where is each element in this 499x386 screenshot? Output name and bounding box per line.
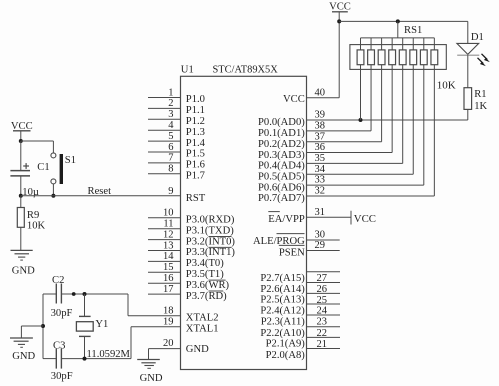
pin number 26 bbox=[317, 284, 328, 295]
svg-text:GND: GND bbox=[186, 344, 209, 355]
svg-text:VCC: VCC bbox=[354, 213, 376, 225]
svg-text:P1.7: P1.7 bbox=[186, 171, 205, 182]
pin number 7 bbox=[168, 153, 173, 164]
wire pin 29 stub bbox=[307, 250, 340, 252]
pin number 8 bbox=[168, 164, 173, 175]
wire pin 36 net P0.3 bbox=[307, 152, 393, 154]
overline RD of P3.7 bbox=[209, 290, 224, 292]
svg-text:11: 11 bbox=[163, 219, 173, 230]
wire pin 37 net P0.2 bbox=[307, 141, 382, 143]
wire pin 4 stub bbox=[148, 129, 181, 131]
op-amp U1 microcontroller STC/AT89X5X body bbox=[181, 76, 307, 369]
pin number 27 bbox=[317, 273, 328, 284]
wire pin 5 stub bbox=[148, 140, 181, 142]
svg-text:37: 37 bbox=[315, 131, 326, 142]
svg-text:5: 5 bbox=[168, 131, 173, 142]
resistor RS1 element 6 bbox=[410, 38, 417, 65]
svg-text:P2.1(A9): P2.1(A9) bbox=[266, 339, 306, 350]
wire pin 10 stub bbox=[148, 217, 181, 219]
pin number 16 bbox=[163, 273, 174, 284]
wire pin 31 EA/VPP to VCC bbox=[307, 211, 352, 225]
pin label RST bbox=[186, 193, 206, 204]
svg-text:GND: GND bbox=[12, 265, 35, 276]
svg-text:P1.3: P1.3 bbox=[186, 127, 205, 138]
C1 polarity plus sign bbox=[23, 163, 29, 169]
wire RS1-6 to P0.5 bbox=[412, 65, 414, 175]
wire pin 34 net P0.5 bbox=[307, 173, 414, 175]
svg-text:10K: 10K bbox=[437, 80, 456, 92]
wire pin 39 net P0.0 bbox=[307, 119, 468, 121]
svg-text:P0.6(AD6): P0.6(AD6) bbox=[258, 182, 305, 193]
pin label P1.7 bbox=[186, 171, 205, 182]
GND label (pin 20) bbox=[140, 373, 163, 384]
svg-text:P0.4(AD4): P0.4(AD4) bbox=[258, 161, 305, 172]
pin number 36 bbox=[315, 142, 326, 153]
pin label PSEN bbox=[279, 248, 305, 259]
resistor RS1 element 8 bbox=[431, 38, 438, 65]
ground symbol (crystal) bbox=[10, 338, 33, 347]
pin label P0.4(AD4) bbox=[258, 161, 305, 172]
pin label P3.4(T0) bbox=[186, 258, 224, 269]
wire pin 2 stub bbox=[148, 107, 181, 109]
GND label (reset) bbox=[12, 265, 35, 276]
pin number 13 bbox=[163, 240, 174, 251]
pin number 39 bbox=[315, 110, 326, 121]
D1 light arrow 2 bbox=[478, 58, 486, 66]
RS1 label bbox=[404, 25, 422, 36]
GND label (crystal) bbox=[12, 351, 35, 362]
wire pin 33 net P0.6 bbox=[307, 184, 424, 186]
pin label P2.2(A10) bbox=[260, 328, 305, 339]
wire XTAL bottom net bbox=[43, 358, 131, 360]
pin label P3.3(INT1) bbox=[186, 247, 236, 258]
svg-text:P2.3(A11): P2.3(A11) bbox=[261, 316, 306, 327]
R1 label bbox=[474, 89, 486, 100]
svg-text:C3: C3 bbox=[53, 340, 65, 351]
wire pin P2.2 stub bbox=[307, 326, 341, 328]
svg-text:7: 7 bbox=[168, 153, 173, 164]
svg-text:P0.3(AD3): P0.3(AD3) bbox=[258, 150, 305, 161]
svg-text:P3.0(RXD): P3.0(RXD) bbox=[186, 215, 235, 226]
pin label P0.2(AD2) bbox=[258, 139, 305, 150]
svg-text:P3.1(TXD): P3.1(TXD) bbox=[186, 225, 234, 236]
pin label P2.0(A8) bbox=[266, 350, 306, 361]
pin label P0.5(AD5) bbox=[258, 171, 305, 182]
svg-text:1K: 1K bbox=[474, 101, 487, 112]
pin number 25 bbox=[317, 295, 328, 306]
pin label P2.6(A14) bbox=[260, 284, 305, 295]
pin label P0.7(AD7) bbox=[258, 193, 305, 204]
wire pin 6 stub bbox=[148, 151, 181, 153]
svg-text:U1: U1 bbox=[181, 64, 194, 75]
pin number 31 bbox=[315, 207, 326, 218]
pin number 4 bbox=[168, 120, 174, 131]
wire pin P2.7 stub bbox=[307, 271, 341, 273]
svg-text:RST: RST bbox=[186, 193, 206, 204]
svg-text:40: 40 bbox=[315, 87, 326, 98]
pin number 21 bbox=[317, 339, 328, 350]
svg-text:D1: D1 bbox=[471, 32, 484, 43]
pin label P3.1(TXD) bbox=[186, 225, 234, 236]
pin number 11 bbox=[163, 219, 173, 230]
pin label P2.1(A9) bbox=[266, 339, 306, 350]
svg-text:P3.6(WR): P3.6(WR) bbox=[186, 280, 230, 291]
wire XTAL left vertical bbox=[42, 294, 44, 359]
svg-text:GND: GND bbox=[12, 351, 35, 362]
svg-text:STC/AT89X5X: STC/AT89X5X bbox=[213, 64, 279, 75]
svg-text:P2.4(A12): P2.4(A12) bbox=[260, 305, 305, 316]
svg-text:18: 18 bbox=[163, 306, 174, 317]
svg-text:S1: S1 bbox=[65, 155, 76, 166]
pin number 23 bbox=[317, 316, 328, 327]
svg-text:P2.5(A13): P2.5(A13) bbox=[260, 295, 305, 306]
svg-text:P1.6: P1.6 bbox=[186, 160, 205, 171]
pin label P3.7(RD) bbox=[186, 291, 227, 302]
pin label P3.6(WR) bbox=[186, 280, 230, 291]
svg-text:Y1: Y1 bbox=[95, 319, 108, 330]
svg-text:20: 20 bbox=[163, 338, 174, 349]
wire R1 to P0.0 bbox=[467, 109, 469, 120]
resistor R9 bbox=[17, 196, 24, 250]
wire VCC to D1 bbox=[467, 21, 469, 43]
wire S1 to reset net bbox=[52, 184, 54, 196]
resistor RS1 element 3 bbox=[378, 38, 385, 65]
node junction RS1 stem bbox=[396, 19, 400, 23]
svg-text:P2.6(A14): P2.6(A14) bbox=[260, 284, 305, 295]
overline EA bbox=[268, 211, 280, 213]
svg-text:33: 33 bbox=[315, 175, 326, 186]
pin number 38 bbox=[315, 120, 326, 131]
pin number 10 bbox=[163, 208, 174, 219]
overline PROG bbox=[277, 233, 305, 235]
node junction VCC/C1/S1 bbox=[19, 139, 23, 143]
wire pin 32 net P0.7 bbox=[307, 195, 435, 197]
wire VCC to S1 bbox=[21, 141, 54, 153]
wire D1 to R1 bbox=[467, 55, 469, 87]
wire pin 40 VCC stub bbox=[307, 97, 340, 99]
node junction Y1 bottom bbox=[83, 357, 87, 361]
LED D1 bbox=[457, 43, 479, 55]
svg-text:39: 39 bbox=[315, 110, 326, 121]
C1 value 10u bbox=[22, 187, 39, 198]
pin label P1.1 bbox=[186, 105, 205, 116]
pin number 30 bbox=[315, 230, 326, 241]
svg-text:P3.2(INT0): P3.2(INT0) bbox=[186, 236, 236, 247]
pin number 14 bbox=[163, 251, 174, 262]
C2 label bbox=[52, 275, 64, 286]
wire RS1-4 to P0.3 bbox=[391, 65, 393, 153]
pin number 18 bbox=[163, 306, 174, 317]
wire RS1-8 to P0.7 bbox=[433, 65, 435, 196]
pin number 9 bbox=[168, 186, 173, 197]
wire RS1-3 to P0.2 bbox=[381, 65, 383, 142]
svg-text:P3.3(INT1): P3.3(INT1) bbox=[186, 247, 236, 258]
svg-text:P1.1: P1.1 bbox=[186, 105, 205, 116]
resistor RS1 element 7 bbox=[420, 38, 427, 65]
svg-text:RS1: RS1 bbox=[404, 25, 422, 36]
node junction S1/reset bbox=[51, 194, 55, 198]
R9 value 10K bbox=[27, 221, 46, 232]
svg-text:10K: 10K bbox=[27, 221, 46, 232]
pin number 1 bbox=[168, 87, 173, 98]
pin label P1.0 bbox=[186, 94, 205, 105]
svg-text:P0.0(AD0): P0.0(AD0) bbox=[258, 117, 305, 128]
wire pin 11 stub bbox=[148, 228, 181, 230]
svg-text:34: 34 bbox=[315, 164, 326, 175]
C2 value 30pF bbox=[51, 308, 73, 319]
svg-text:XTAL2: XTAL2 bbox=[186, 312, 219, 323]
wire pin 16 stub bbox=[148, 282, 181, 284]
pin label P1.2 bbox=[186, 116, 205, 127]
resistor network RS1 body bbox=[350, 45, 446, 70]
pin number 34 bbox=[315, 164, 326, 175]
pin label P2.5(A13) bbox=[260, 295, 305, 306]
chip title STC/AT89X5X bbox=[213, 64, 279, 75]
U1 reference designator bbox=[181, 64, 194, 75]
power symbol VCC (top) bbox=[329, 1, 351, 21]
pin label P1.6 bbox=[186, 160, 205, 171]
svg-text:P0.2(AD2): P0.2(AD2) bbox=[258, 139, 305, 150]
node junction crystal gnd bbox=[41, 324, 45, 328]
pin number 40 bbox=[315, 87, 326, 98]
C3 label bbox=[53, 340, 65, 351]
Y1 value 11.0592M bbox=[87, 349, 131, 360]
pin number 24 bbox=[317, 305, 328, 316]
wire pin 1 stub bbox=[148, 97, 181, 99]
svg-text:P0.5(AD5): P0.5(AD5) bbox=[258, 171, 305, 182]
wire RS1-5 to P0.4 bbox=[402, 65, 404, 164]
R9 label bbox=[27, 210, 39, 221]
wire RS1 common bus bbox=[361, 37, 435, 39]
ground symbol (reset) bbox=[11, 250, 33, 260]
pin number 20 bbox=[163, 338, 174, 349]
wire pin 15 stub bbox=[148, 271, 181, 273]
pin number 19 bbox=[163, 317, 174, 328]
resistor RS1 element 4 bbox=[389, 38, 396, 65]
D1 light arrow 1 bbox=[482, 54, 490, 62]
wire pin P2.3 stub bbox=[307, 314, 341, 316]
pin label EA/VPP bbox=[268, 214, 305, 225]
wire pin P2.6 stub bbox=[307, 282, 341, 284]
pin number 33 bbox=[315, 175, 326, 186]
svg-text:17: 17 bbox=[163, 284, 174, 295]
wire pin 12 stub bbox=[148, 239, 181, 241]
pin label P3.5(T1) bbox=[186, 269, 224, 280]
svg-text:P2.7(A15): P2.7(A15) bbox=[260, 273, 305, 284]
resistor RS1 element 1 bbox=[357, 38, 364, 65]
pin number 32 bbox=[315, 186, 326, 197]
svg-text:13: 13 bbox=[163, 240, 174, 251]
node junction VCC rail left bbox=[337, 19, 341, 23]
svg-text:32: 32 bbox=[315, 186, 326, 197]
overline INT1 of P3.3 bbox=[209, 246, 232, 248]
pin label P0.0(AD0) bbox=[258, 117, 305, 128]
overline INT0 of P3.2 bbox=[209, 236, 232, 238]
svg-text:19: 19 bbox=[163, 317, 174, 328]
pin label VCC bbox=[283, 94, 305, 105]
pin label P1.5 bbox=[186, 149, 205, 160]
svg-text:P1.5: P1.5 bbox=[186, 149, 205, 160]
svg-text:4: 4 bbox=[168, 120, 174, 131]
power symbol VCC (reset) bbox=[11, 121, 33, 141]
wire pin P2.1 stub bbox=[307, 336, 341, 338]
pin number 5 bbox=[168, 131, 173, 142]
svg-text:P0.1(AD1): P0.1(AD1) bbox=[258, 128, 305, 139]
svg-text:12: 12 bbox=[163, 229, 174, 240]
crystal Y1 bbox=[76, 294, 93, 359]
overline WR of P3.6 bbox=[209, 279, 226, 281]
pin label P3.2(INT0) bbox=[186, 236, 236, 247]
svg-text:C2: C2 bbox=[52, 275, 64, 286]
ground symbol (pin 20) bbox=[137, 360, 160, 369]
wire pin 14 stub bbox=[148, 260, 181, 262]
wire pin 35 net P0.4 bbox=[307, 162, 403, 164]
pin number 15 bbox=[163, 262, 174, 273]
RS1 value 10K bbox=[437, 80, 456, 92]
node junction RS1-1 on P0.0 bbox=[359, 118, 363, 122]
pin number 35 bbox=[315, 153, 326, 164]
pin label ALE/PROG bbox=[253, 236, 305, 247]
svg-text:R9: R9 bbox=[27, 210, 39, 221]
pin label P0.3(AD3) bbox=[258, 150, 305, 161]
svg-text:16: 16 bbox=[163, 273, 174, 284]
svg-text:GND: GND bbox=[140, 373, 163, 384]
svg-text:P3.4(T0): P3.4(T0) bbox=[186, 258, 224, 269]
pin number 6 bbox=[168, 142, 173, 153]
R1 value 1K bbox=[474, 101, 487, 112]
wire VCC rail bbox=[339, 20, 468, 22]
resistor R1 bbox=[464, 88, 472, 110]
svg-text:P1.4: P1.4 bbox=[186, 138, 206, 149]
svg-text:P1.2: P1.2 bbox=[186, 116, 205, 127]
svg-text:14: 14 bbox=[163, 251, 174, 262]
wire pin P2.0 stub bbox=[307, 348, 341, 350]
svg-text:36: 36 bbox=[315, 142, 326, 153]
pin number 2 bbox=[168, 98, 173, 109]
svg-text:35: 35 bbox=[315, 153, 326, 164]
svg-text:1: 1 bbox=[168, 87, 173, 98]
wire pin 38 net P0.1 bbox=[307, 130, 372, 132]
svg-text:C1: C1 bbox=[37, 162, 49, 173]
svg-text:P3.5(T1): P3.5(T1) bbox=[186, 269, 224, 280]
Y1 label bbox=[95, 319, 108, 330]
wire pin 17 stub bbox=[148, 293, 181, 295]
wire pin 7 stub bbox=[148, 162, 181, 164]
svg-text:P0.7(AD7): P0.7(AD7) bbox=[258, 193, 305, 204]
svg-text:3: 3 bbox=[168, 109, 173, 120]
capacitor C1 bbox=[10, 141, 30, 196]
pin label XTAL2 bbox=[186, 312, 219, 323]
pin number 3 bbox=[168, 109, 173, 120]
svg-text:30pF: 30pF bbox=[51, 371, 73, 382]
net label VCC at pin 31 bbox=[354, 213, 376, 225]
wire pin 30 stub bbox=[307, 239, 340, 241]
svg-text:XTAL1: XTAL1 bbox=[186, 323, 219, 334]
pin number 12 bbox=[163, 229, 174, 240]
wire RS1-2 to P0.1 bbox=[370, 65, 372, 131]
svg-text:Reset: Reset bbox=[88, 186, 112, 197]
net label Reset bbox=[88, 186, 112, 197]
pin label P2.7(A15) bbox=[260, 273, 305, 284]
svg-text:10: 10 bbox=[163, 208, 174, 219]
wire reset net to RST pin 9 bbox=[21, 195, 181, 197]
wire XTAL1 pin 19 bbox=[131, 327, 181, 359]
svg-text:23: 23 bbox=[317, 316, 328, 327]
capacitor C2 bbox=[56, 284, 61, 304]
wire pin P2.5 stub bbox=[307, 292, 341, 294]
svg-text:PSEN: PSEN bbox=[279, 248, 305, 259]
pin label P0.1(AD1) bbox=[258, 128, 305, 139]
resistor RS1 element 2 bbox=[368, 38, 375, 65]
wire GND pin 20 bbox=[149, 349, 181, 360]
pin label P1.3 bbox=[186, 127, 205, 138]
S1 label bbox=[65, 155, 76, 166]
pin number 17 bbox=[163, 284, 174, 295]
svg-text:8: 8 bbox=[168, 164, 173, 175]
svg-text:15: 15 bbox=[163, 262, 174, 273]
svg-text:30pF: 30pF bbox=[51, 308, 73, 319]
svg-text:VCC: VCC bbox=[329, 1, 351, 12]
pin number 22 bbox=[317, 328, 328, 339]
pin label P2.4(A12) bbox=[260, 305, 305, 316]
node junction C1/reset bbox=[19, 194, 23, 198]
resistor RS1 element 5 bbox=[399, 38, 406, 65]
D1 label bbox=[471, 32, 484, 43]
wire RS1-1 to P0.0 bbox=[360, 65, 362, 120]
svg-text:VCC: VCC bbox=[283, 94, 305, 105]
svg-text:P3.7(RD): P3.7(RD) bbox=[186, 291, 227, 302]
switch S1 bbox=[51, 153, 63, 184]
capacitor C3 bbox=[56, 349, 61, 369]
pin label P3.0(RXD) bbox=[186, 215, 235, 226]
wire pin 8 stub bbox=[148, 173, 181, 175]
svg-text:P2.2(A10): P2.2(A10) bbox=[260, 328, 305, 339]
wire RS1 stem bbox=[397, 21, 399, 38]
svg-text:6: 6 bbox=[168, 142, 173, 153]
wire pin 40 vertical to VCC rail bbox=[338, 21, 340, 97]
svg-text:P1.0: P1.0 bbox=[186, 94, 205, 105]
C1 label bbox=[37, 162, 49, 173]
wire RS1-7 to P0.6 bbox=[423, 65, 425, 185]
pin label P1.4 bbox=[186, 138, 206, 149]
node junction Y1 top bbox=[83, 292, 87, 296]
pin number 29 bbox=[315, 240, 326, 251]
svg-text:38: 38 bbox=[315, 120, 326, 131]
svg-text:EA/VPP: EA/VPP bbox=[268, 214, 305, 225]
svg-text:29: 29 bbox=[315, 240, 326, 251]
wire XTAL top net bbox=[43, 293, 128, 295]
svg-text:P2.0(A8): P2.0(A8) bbox=[266, 350, 306, 361]
C3 value 30pF bbox=[51, 371, 73, 382]
pin number 37 bbox=[315, 131, 326, 142]
svg-text:2: 2 bbox=[168, 98, 173, 109]
wire pin 3 stub bbox=[148, 118, 181, 120]
wire pin P2.4 stub bbox=[307, 303, 341, 305]
pin label P2.3(A11) bbox=[261, 316, 306, 327]
node junction top-a bbox=[72, 292, 76, 296]
wire pin 13 stub bbox=[148, 250, 181, 252]
svg-text:31: 31 bbox=[315, 207, 326, 218]
svg-text:R1: R1 bbox=[474, 89, 486, 100]
pin label XTAL1 bbox=[186, 323, 219, 334]
svg-text:30: 30 bbox=[315, 230, 326, 241]
wire XTAL2 pin 18 bbox=[128, 294, 181, 316]
wire to crystal ground bbox=[21, 326, 43, 338]
pin label GND bbox=[186, 344, 209, 355]
overline PSEN bbox=[279, 244, 305, 246]
pin label P0.6(AD6) bbox=[258, 182, 305, 193]
